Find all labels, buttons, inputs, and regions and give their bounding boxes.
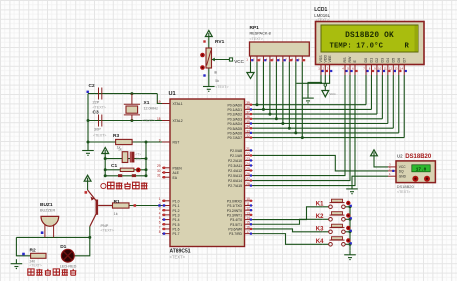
svg-text:<TEXT>: <TEXT>	[215, 85, 228, 89]
svg-text:29: 29	[157, 164, 161, 168]
wire XTAL2 net (C3 to U1 XTAL2)	[88, 120, 162, 122]
svg-text:P1.7: P1.7	[173, 232, 180, 236]
wire DS18B20 DQ to P2.1	[253, 155, 389, 170]
wire reset subcircuit right riser	[145, 142, 147, 176]
svg-text:10u: 10u	[135, 157, 141, 161]
svg-text:P1.5: P1.5	[173, 223, 180, 227]
label reset chinese text	[101, 183, 106, 188]
wire P0.0 net to LCD D0	[253, 104, 367, 106]
svg-text:37: 37	[246, 111, 250, 115]
wire LCD RW to P2.6	[253, 75, 351, 181]
wire P0.7 net to LCD D7	[253, 137, 405, 139]
ground (alarm branch)	[11, 259, 23, 266]
svg-text:U1: U1	[169, 91, 176, 97]
power terminal	[371, 150, 378, 156]
ground (LCD VSS)	[302, 94, 314, 101]
svg-text:38: 38	[246, 106, 250, 110]
svg-text:PNP: PNP	[101, 224, 109, 228]
ground (RV1)	[203, 82, 215, 89]
wire RV1 bottom to ground	[208, 68, 210, 82]
svg-text:P2.1/A9: P2.1/A9	[230, 154, 242, 158]
svg-text:P2.3/A11: P2.3/A11	[228, 164, 242, 168]
capacitor C2	[99, 88, 102, 100]
svg-text:14: 14	[400, 67, 404, 71]
wire K common bus to ground	[349, 207, 351, 251]
svg-text:D7: D7	[402, 58, 406, 63]
svg-text:C1: C1	[111, 163, 117, 169]
svg-text:RESPACK-8: RESPACK-8	[250, 32, 271, 36]
wire P0.4 net to LCD D4	[253, 123, 388, 125]
svg-text:<TEXT>: <TEXT>	[93, 105, 106, 109]
junction R3-gnd rail	[87, 141, 90, 144]
resistor R2	[31, 253, 46, 258]
svg-text:5: 5	[159, 216, 161, 220]
svg-text:17.0: 17.0	[416, 168, 427, 173]
junction K4 bus	[349, 243, 352, 246]
svg-text:DS18B20: DS18B20	[397, 184, 415, 189]
power terminal	[205, 31, 212, 37]
wire DS18B20 GND to ground	[352, 176, 388, 184]
wire reset subcircuit bottom rail	[105, 175, 146, 177]
svg-text:25: 25	[246, 167, 250, 171]
svg-text:15: 15	[246, 221, 250, 225]
resistor R4 (vertical, reset)	[122, 152, 128, 163]
svg-text:P2.7/A15: P2.7/A15	[228, 184, 242, 188]
svg-text:5k: 5k	[215, 79, 219, 83]
junction K3 bus	[349, 230, 352, 233]
svg-text:4: 4	[159, 211, 161, 215]
svg-text:P1.3: P1.3	[173, 213, 180, 217]
wire P0.6 net to LCD D6	[253, 132, 399, 134]
wire reset subcircuit top rail	[105, 158, 146, 160]
wire LCD VSS to ground	[308, 75, 321, 94]
svg-text:P1.2: P1.2	[173, 209, 180, 213]
svg-text:P0.0/AD0: P0.0/AD0	[227, 103, 242, 107]
svg-text:13: 13	[394, 67, 398, 71]
svg-text:32: 32	[246, 134, 250, 138]
U1 left pins	[157, 100, 183, 236]
wire P0.1 net to LCD D1	[253, 108, 372, 110]
svg-text:DS18B20: DS18B20	[405, 154, 432, 160]
svg-text:RS: RS	[343, 57, 347, 63]
svg-text:30P: 30P	[94, 127, 101, 131]
push button K1	[316, 199, 352, 208]
svg-text:XTAL1: XTAL1	[173, 102, 183, 106]
svg-text:D3: D3	[381, 58, 385, 63]
transistor Q1 PNP	[88, 190, 113, 227]
svg-text:P1.0: P1.0	[173, 199, 180, 203]
svg-text:<T>: <T>	[135, 152, 141, 156]
svg-text:DQ: DQ	[399, 169, 404, 173]
junction RP1-P0.1	[262, 108, 265, 111]
svg-text:P3.4/T0: P3.4/T0	[230, 218, 242, 222]
wire R1 base net	[129, 205, 162, 207]
wire K2 feed from P3.5	[253, 219, 323, 224]
svg-text:P1.6: P1.6	[173, 228, 180, 232]
svg-text:R: R	[405, 43, 410, 51]
svg-text:1: 1	[159, 197, 161, 201]
svg-text:VCC: VCC	[234, 59, 244, 64]
svg-text:LED-RED: LED-RED	[60, 264, 77, 268]
DS18B20 mini display	[412, 165, 430, 172]
svg-text:6: 6	[159, 221, 161, 225]
svg-text:P0.5/AD5: P0.5/AD5	[227, 127, 242, 131]
wire RP1 pin3 drop	[262, 62, 264, 109]
svg-text:1k: 1k	[114, 212, 118, 216]
svg-text:P2.4/A12: P2.4/A12	[228, 169, 242, 173]
svg-text:XTAL2: XTAL2	[173, 119, 183, 123]
svg-text:28: 28	[246, 182, 250, 186]
junction K2 bus	[349, 218, 352, 221]
wire buzzer rail	[16, 236, 89, 238]
svg-text:TEMP: 17.0°C: TEMP: 17.0°C	[330, 42, 384, 51]
svg-text:R1: R1	[114, 199, 120, 205]
svg-text:<TEXT>: <TEXT>	[142, 118, 155, 122]
svg-text:10: 10	[246, 197, 250, 201]
svg-text:D6: D6	[397, 58, 401, 63]
svg-text:P1.4: P1.4	[173, 218, 180, 222]
wire reset subcircuit left riser	[104, 157, 106, 176]
label 单片机复位 (MCU reset)	[108, 182, 148, 189]
ground (DS18B20)	[346, 184, 358, 191]
svg-text:RW: RW	[348, 56, 352, 63]
ground terminal (RP1 pin1)	[250, 70, 252, 73]
svg-text:<TEXT>: <TEXT>	[170, 255, 186, 260]
svg-text:16: 16	[246, 225, 250, 229]
capacitor C3	[99, 115, 102, 127]
svg-text:R2: R2	[30, 248, 36, 254]
wire P0.5 net to LCD D5	[253, 127, 394, 129]
capacitor C4 (electrolytic, reset)	[130, 152, 135, 163]
svg-text:3: 3	[159, 207, 161, 211]
svg-text:P0.2/AD2: P0.2/AD2	[227, 113, 242, 117]
svg-text:22: 22	[246, 152, 250, 156]
svg-text:14: 14	[246, 216, 250, 220]
wire RP1 pin9 drop	[301, 62, 303, 138]
wire K4 feed from P3.7	[253, 234, 323, 245]
svg-text:<TEXT>: <TEXT>	[30, 264, 42, 268]
wire RP1 pin4 drop	[269, 62, 271, 114]
svg-text:D2: D2	[375, 58, 379, 63]
wire collector to buzzer rail	[89, 227, 91, 238]
svg-text:DS18B20 OK: DS18B20 OK	[345, 32, 394, 40]
resistor R3	[116, 139, 133, 144]
wire LCD RS to P2.5	[253, 75, 346, 176]
svg-text:P2.6/A14: P2.6/A14	[228, 179, 242, 183]
svg-text:VEE: VEE	[328, 55, 332, 63]
svg-text:8: 8	[159, 230, 161, 234]
svg-text:P2.5/A13: P2.5/A13	[228, 174, 242, 178]
wire LCD VDD to power	[324, 75, 326, 84]
svg-text:P0.1/AD1: P0.1/AD1	[227, 108, 242, 112]
svg-text:P0.4/AD4: P0.4/AD4	[227, 122, 242, 126]
indicator (reset red dot)	[136, 168, 141, 173]
svg-text:RV1: RV1	[215, 39, 225, 45]
svg-text:P0.7/AD7: P0.7/AD7	[227, 136, 242, 140]
svg-text:39: 39	[246, 101, 250, 105]
junction RP1-P0.7	[301, 136, 304, 139]
svg-text:12: 12	[389, 67, 393, 71]
svg-text:BUZ1: BUZ1	[40, 202, 53, 208]
push button K2	[316, 212, 352, 221]
wire P0.3 net to LCD D3	[253, 118, 383, 120]
svg-text:D1: D1	[370, 58, 374, 63]
svg-text:U2: U2	[397, 154, 403, 159]
svg-text:P1.1: P1.1	[173, 204, 180, 208]
wire P0.2 net to LCD D2	[253, 113, 377, 115]
svg-text:<TEXT>: <TEXT>	[250, 37, 263, 41]
junction crystal-top	[130, 92, 133, 95]
svg-text:P3.1/TXD: P3.1/TXD	[227, 204, 242, 208]
junction crystal-bottom	[130, 119, 133, 122]
svg-text:19: 19	[157, 100, 161, 104]
svg-text:P2.2/A10: P2.2/A10	[228, 159, 242, 163]
svg-text:27: 27	[246, 177, 250, 181]
power terminal	[84, 175, 91, 181]
wire D1 to collector node	[74, 237, 90, 255]
LCD screen	[321, 25, 418, 52]
junction VEE/VSS	[320, 82, 322, 84]
svg-text:23: 23	[246, 157, 250, 161]
junction RP1-P0.2	[268, 113, 271, 116]
svg-text:GND: GND	[399, 175, 407, 179]
U1 left pin state markers	[163, 167, 165, 235]
wire C1 row	[105, 169, 120, 171]
wire K3 feed from P3.6	[253, 229, 323, 232]
wire left branch down to R2	[16, 237, 30, 255]
svg-text:12.0MHz: 12.0MHz	[144, 107, 159, 111]
svg-text:EA: EA	[173, 176, 178, 180]
svg-text:35: 35	[246, 120, 250, 124]
svg-text:12: 12	[246, 207, 250, 211]
junction RP1-P0.6	[294, 131, 297, 134]
junction collector node	[88, 236, 91, 239]
svg-text:RST: RST	[173, 141, 180, 145]
svg-text:RP1: RP1	[250, 25, 260, 31]
push button K3	[316, 224, 352, 233]
DS18B20 pins	[388, 163, 396, 177]
svg-text:P0.3/AD3: P0.3/AD3	[227, 117, 242, 121]
LCD pins	[318, 55, 407, 75]
wire RP1 pin7 drop	[288, 62, 290, 128]
junction K1 bus	[349, 205, 352, 208]
svg-text:R3: R3	[113, 133, 119, 139]
wire RP1 pin8 drop	[295, 62, 297, 133]
svg-text:X1: X1	[144, 100, 150, 106]
ground (crystal caps)	[82, 146, 94, 153]
svg-text:18: 18	[157, 117, 161, 121]
power terminal (LCD VDD, down)	[324, 86, 326, 90]
junction RP1-P0.4	[281, 122, 284, 125]
wire XTAL1 net (C2 to U1 XTAL1)	[88, 93, 157, 95]
svg-text:30: 30	[157, 169, 161, 173]
svg-text:C2: C2	[89, 83, 95, 89]
svg-text:P3.0/RXD: P3.0/RXD	[227, 199, 243, 203]
U1 right pins	[227, 101, 253, 236]
label 声光报警装置 (sound-light alarm)	[28, 269, 77, 275]
wire LCD VEE	[296, 75, 329, 83]
svg-text:13: 13	[246, 211, 250, 215]
svg-text:24: 24	[246, 162, 250, 166]
svg-text:<TEXT>: <TEXT>	[397, 190, 410, 194]
svg-text:21: 21	[246, 147, 250, 151]
ground (keys)	[344, 250, 356, 257]
wire RP1 pin5 drop	[275, 62, 277, 119]
wire RV1 wiper to VCC terminal	[212, 59, 230, 61]
svg-text:<TEXT>: <TEXT>	[93, 133, 106, 137]
op-amp U1 AT89C51 microcontroller body	[170, 99, 245, 247]
svg-text:34: 34	[246, 125, 250, 129]
resistor R1	[113, 203, 130, 208]
svg-text:P3.2/INT0: P3.2/INT0	[227, 209, 242, 213]
wire LCD E to P2.7	[253, 75, 356, 186]
svg-text:VCC: VCC	[329, 92, 336, 96]
svg-text:D5: D5	[392, 58, 396, 63]
junction RST/reset riser	[145, 141, 148, 144]
svg-text:9: 9	[159, 138, 161, 142]
svg-text:7: 7	[159, 225, 161, 229]
svg-text:P2.0/A8: P2.0/A8	[230, 149, 242, 153]
VCC terminal	[229, 58, 232, 61]
reset button contact pads	[118, 174, 122, 177]
wire K1 feed from P3.4	[253, 207, 323, 220]
wire RP1 pin2 drop	[256, 62, 258, 105]
svg-text:P0.6/AD6: P0.6/AD6	[227, 132, 242, 136]
svg-text:P3.6/WR: P3.6/WR	[228, 228, 242, 232]
svg-text:PSEN: PSEN	[173, 166, 183, 170]
svg-text:C3: C3	[93, 110, 99, 116]
svg-text:1k: 1k	[118, 148, 122, 152]
svg-text:17: 17	[246, 230, 250, 234]
junction RP1-P0.0	[255, 103, 258, 106]
svg-text:22P: 22P	[93, 101, 100, 105]
svg-text:<TEXT>: <TEXT>	[101, 229, 114, 233]
svg-text:26: 26	[246, 172, 250, 176]
junction C3-gnd rail	[87, 119, 90, 122]
svg-text:10: 10	[378, 67, 382, 71]
wire base lead	[99, 205, 112, 207]
wire caps ground rail	[87, 94, 89, 146]
svg-text:31: 31	[157, 174, 161, 178]
wire RST net	[88, 141, 162, 143]
DS18B20 buttons	[412, 176, 418, 182]
svg-text:P3.7/RD: P3.7/RD	[229, 232, 242, 236]
svg-text:BUZZER: BUZZER	[40, 209, 55, 213]
svg-text:36: 36	[246, 115, 250, 119]
U1 right pin state markers	[250, 104, 252, 235]
junction RP1-P0.5	[288, 127, 291, 130]
RV1 adjust buttons	[200, 53, 205, 58]
junction RP1-P0.3	[275, 117, 278, 120]
crystal X1	[124, 94, 140, 121]
svg-text:ALE: ALE	[173, 171, 180, 175]
svg-text:P3.3/INT1: P3.3/INT1	[227, 213, 242, 217]
svg-text:D4: D4	[386, 58, 390, 63]
wire RP1 pin6 drop	[282, 62, 284, 124]
wire RP1 pin1	[250, 62, 252, 70]
svg-text:11: 11	[246, 202, 250, 206]
push button K4	[316, 237, 352, 246]
svg-text:D0: D0	[364, 58, 368, 63]
power terminal (reset)	[102, 148, 109, 154]
svg-text:11: 11	[384, 67, 387, 71]
svg-text:33: 33	[246, 129, 250, 133]
svg-text:P3.5/T1: P3.5/T1	[230, 223, 242, 227]
